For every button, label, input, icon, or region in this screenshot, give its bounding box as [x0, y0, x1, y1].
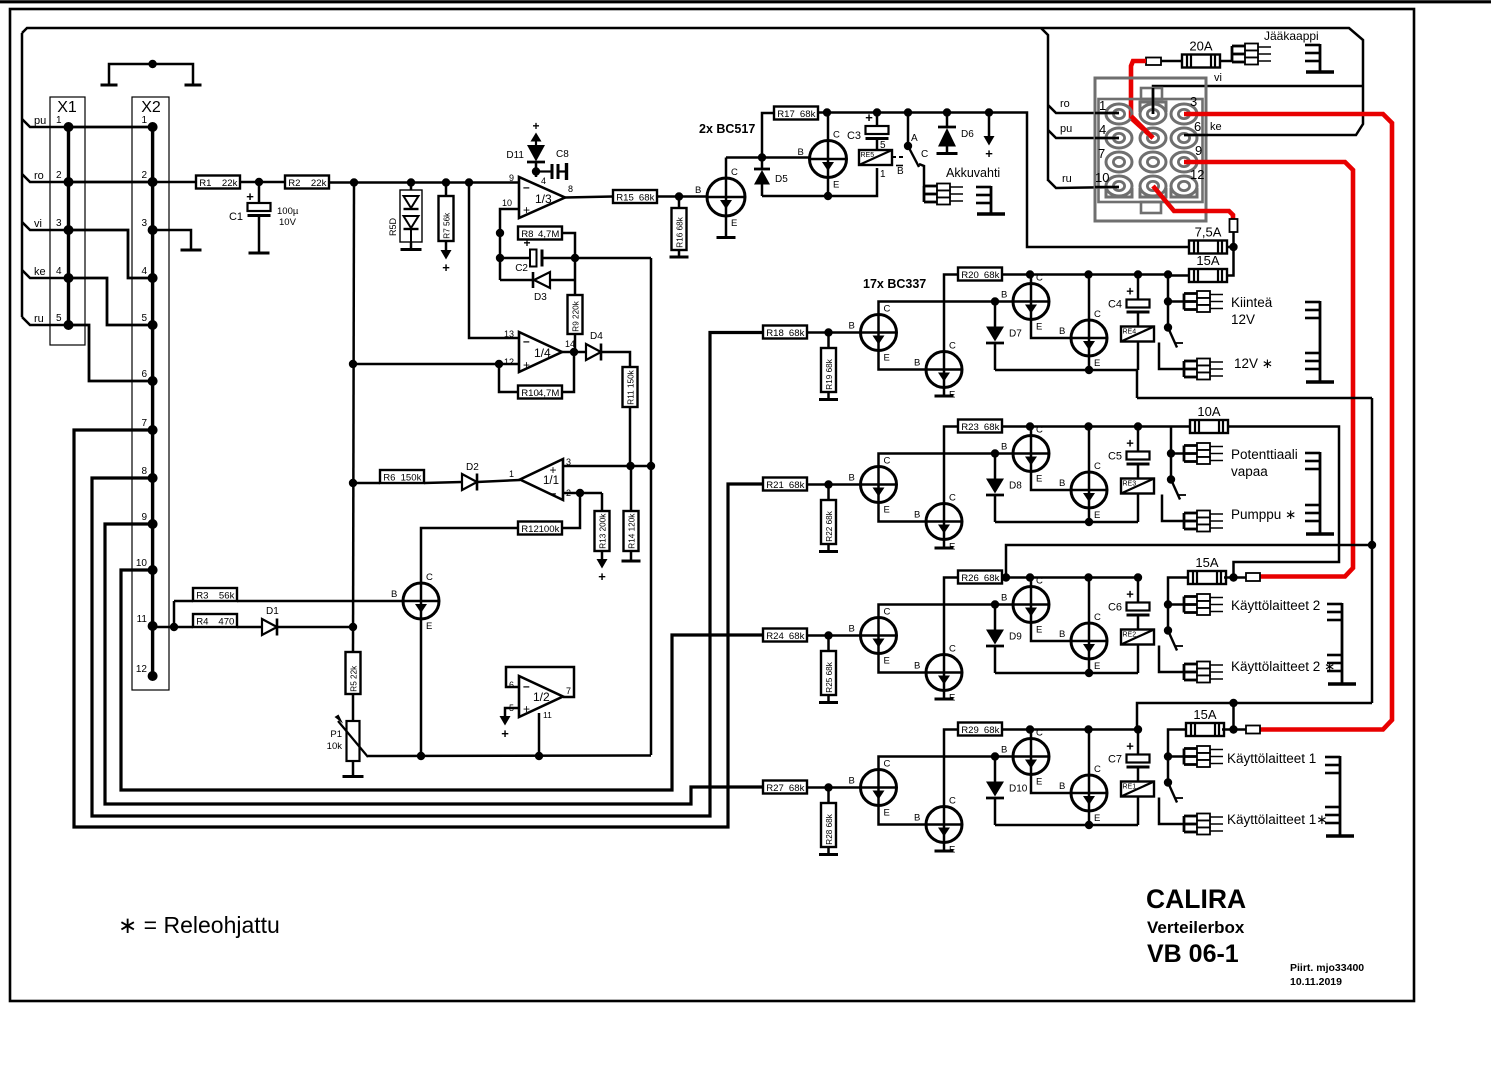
svg-text:17x BC337: 17x BC337: [863, 277, 926, 291]
svg-text:C: C: [949, 341, 956, 352]
wire ke from pin6: [1184, 134, 1208, 136]
svg-text:R14 120k: R14 120k: [627, 513, 636, 549]
wire R13 to supply arrow: [601, 551, 604, 559]
svg-text:E: E: [426, 621, 432, 632]
svg-text:C: C: [426, 572, 433, 583]
wire pu into pin4: [1095, 137, 1119, 139]
svg-text:7: 7: [1098, 146, 1105, 161]
wire Qb collector to R26: [944, 578, 958, 655]
svg-text:C6: C6: [1108, 602, 1122, 614]
svg-text:B: B: [1059, 781, 1065, 792]
svg-text:C: C: [949, 796, 956, 807]
svg-text:22k: 22k: [311, 178, 327, 189]
svg-text:B: B: [391, 589, 397, 600]
node X1 pin 4: [64, 273, 74, 283]
ground bracket above X2: [109, 64, 193, 84]
wire bottom rail row2: [995, 521, 1138, 524]
resistor R4: [193, 614, 237, 627]
wire Qc emitter to Qd base: [1031, 472, 1071, 491]
wire row1 bottom to link: [1136, 370, 1139, 398]
fuse F-10A 10A: [1190, 404, 1228, 433]
resistor R19: [821, 348, 836, 392]
wire vi chamfer to X1: [22, 222, 69, 230]
transistor Qa row4: [849, 759, 897, 819]
wire pulldown bottom: [827, 392, 830, 399]
wire X2.2 to R1: [153, 181, 196, 184]
wire Qb emitter: [943, 843, 946, 850]
svg-text:X2: X2: [141, 99, 161, 116]
wire X2.8 to R18 row: [92, 333, 763, 817]
connector block pin 1: [1106, 104, 1132, 124]
svg-text:5: 5: [141, 313, 147, 324]
wire D5 bottom: [761, 185, 764, 197]
svg-text:1: 1: [509, 469, 514, 479]
switch S row4: [1164, 778, 1183, 802]
diode D4: [586, 331, 603, 361]
resistor R25: [821, 651, 836, 695]
svg-text:7: 7: [141, 418, 147, 429]
svg-text:1: 1: [1099, 98, 1106, 113]
node X2 pin 8: [148, 473, 158, 483]
svg-text:C4: C4: [1108, 299, 1122, 311]
svg-text:100µ: 100µ: [277, 206, 299, 217]
svg-text:C: C: [921, 149, 928, 160]
wire 1/2 feedback loop: [506, 667, 574, 697]
wire C1 tap: [258, 182, 261, 203]
svg-text:20A: 20A: [1189, 39, 1212, 54]
wire tap to connector Kiintea 12V: [1168, 300, 1184, 303]
svg-text:10: 10: [1095, 170, 1109, 185]
fuse F-15A row3 15A: [1188, 555, 1226, 584]
wire switch bracket row2: [1162, 495, 1184, 522]
ground under Qb: [935, 698, 954, 701]
svg-text:68k: 68k: [639, 192, 655, 203]
wire Q2 emitter down: [827, 177, 830, 196]
wire Qa collector to Qc base line: [879, 302, 1014, 315]
svg-text:6: 6: [141, 369, 147, 380]
wire tap to connector Kayttolaitteet 1: [1168, 755, 1184, 758]
resistor R9: [568, 295, 583, 334]
svg-text:RE1: RE1: [1123, 784, 1137, 791]
svg-text:D9: D9: [1009, 632, 1022, 643]
capacitor C8: [537, 149, 570, 180]
wire D8 anode: [994, 454, 997, 479]
ground at X2 pin3: [153, 230, 191, 249]
fuse F-15A row4 15A: [1186, 707, 1224, 736]
svg-text:RE2: RE2: [1123, 632, 1137, 639]
svg-text:C1: C1: [229, 211, 243, 223]
wire cap to relay: [1137, 767, 1140, 782]
wire link row1-row2 horizontal: [1137, 397, 1372, 400]
wire R17 left leg: [762, 113, 774, 158]
svg-text:R25 68k: R25 68k: [825, 661, 834, 692]
wire Qa emitter to Qb base: [879, 806, 927, 825]
svg-text:R13 200k: R13 200k: [598, 513, 607, 549]
resistor R27: [763, 781, 807, 794]
resistor R13: [595, 511, 610, 551]
wire ru to pin10: [1048, 180, 1119, 188]
wire left input bus: [21, 33, 24, 317]
svg-text:3: 3: [56, 218, 62, 229]
wire row4 fuse right node: [1222, 728, 1246, 731]
wire Qd collector: [1088, 730, 1091, 776]
svg-text:5: 5: [56, 313, 62, 324]
ground under R14: [622, 560, 641, 563]
chassis ground row4 outputs: [1325, 756, 1354, 836]
chassis ground row3 outputs: [1327, 603, 1356, 684]
connector Kayttolaitteet 2: [1184, 594, 1223, 615]
wire D2 to 1/1 pin1: [477, 480, 520, 482]
wire row3 rail: [1002, 576, 1138, 579]
diode D2: [462, 462, 479, 491]
wire supply rail y112: [827, 113, 1189, 248]
red wire pin3 to Kayttolaitteet1 fuse: [1184, 114, 1392, 730]
wire row2 rail: [1002, 425, 1171, 428]
svg-text:Jääkaappi: Jääkaappi: [1264, 29, 1319, 43]
resistor R12: [518, 522, 562, 535]
svg-text:ke: ke: [34, 266, 46, 278]
wire bottom rail P1 to C2 vertical: [368, 754, 651, 757]
wire relay to bottom rail: [1137, 797, 1140, 826]
connector block pin 9: [1171, 152, 1197, 172]
wire X2 bus: [151, 127, 154, 676]
resistor R26: [958, 571, 1002, 584]
svg-text:R18: R18: [766, 328, 784, 339]
svg-text:RE5: RE5: [861, 152, 875, 159]
svg-text:4,7M: 4,7M: [538, 229, 559, 240]
resistor R15: [613, 190, 657, 203]
connector block pin 12: [1171, 176, 1197, 197]
svg-text:15A: 15A: [1193, 707, 1216, 722]
svg-text:10k: 10k: [327, 741, 343, 752]
resistor R7: [439, 196, 454, 241]
wire Qd emitter: [1088, 356, 1091, 370]
svg-text:C2: C2: [515, 263, 528, 274]
resistor R20: [958, 268, 1002, 281]
wire 1/1 pin3 line: [563, 465, 651, 468]
svg-text:–: –: [550, 486, 557, 500]
svg-text:E: E: [1094, 510, 1100, 521]
svg-text:68k: 68k: [984, 725, 1000, 736]
svg-text:2: 2: [56, 170, 62, 181]
wire Qb emitter: [943, 540, 946, 547]
wire ru chamfer to X1: [22, 317, 69, 325]
svg-text:100k: 100k: [539, 524, 560, 535]
svg-text:–: –: [523, 180, 530, 194]
wire Qd emitter: [1088, 659, 1091, 673]
svg-text:R22 68k: R22 68k: [825, 510, 834, 541]
node X1 pin 3: [64, 225, 74, 235]
svg-text:C3: C3: [847, 130, 861, 142]
svg-text:B: B: [695, 185, 701, 196]
wire D9 anode: [994, 605, 997, 630]
wire link to row4: [1137, 703, 1372, 730]
supply arrow on rail: [988, 113, 991, 137]
resistor R11: [623, 367, 638, 407]
capacitor C6: [1108, 587, 1150, 616]
switch S row3: [1164, 626, 1183, 650]
ground under Qb: [935, 395, 954, 398]
connector Akkuvahti plug: [924, 184, 963, 205]
chassis ground Jaakaappi: [1305, 44, 1334, 72]
ground under pulldown: [819, 550, 838, 553]
node X2 pin 11: [148, 621, 158, 631]
resistor R17: [774, 107, 818, 120]
svg-text:4: 4: [141, 266, 147, 277]
wire switch bracket row1: [1159, 343, 1184, 370]
connector 12V*: [1184, 359, 1223, 380]
svg-text:1: 1: [141, 115, 147, 126]
svg-text:R20: R20: [961, 270, 979, 281]
svg-text:10A: 10A: [1197, 404, 1220, 419]
relay RE5: [859, 150, 892, 165]
svg-text:D7: D7: [1009, 329, 1022, 340]
svg-text:C: C: [1094, 612, 1101, 623]
svg-text:B: B: [1001, 442, 1007, 453]
connector block pin 2: [1140, 102, 1166, 124]
connector block pin 8: [1140, 152, 1166, 172]
fuse F-7.5A 7,5A: [1189, 225, 1227, 254]
svg-text:E: E: [1036, 474, 1042, 485]
svg-text:+: +: [501, 726, 509, 741]
resistor R29: [958, 723, 1002, 736]
svg-text:+: +: [1126, 436, 1134, 451]
svg-text:C5: C5: [1108, 451, 1122, 463]
terminal row4: [1246, 726, 1260, 734]
wire tap to connector Potenttiaali vapaa: [1171, 452, 1184, 455]
wire tap to connector Kayttolaitteet 2: [1168, 603, 1184, 606]
wire pulldown bottom: [827, 544, 830, 551]
svg-text:C: C: [1094, 461, 1101, 472]
transistor Qc row4: [1001, 728, 1049, 788]
svg-text:∗ = Releohjattu: ∗ = Releohjattu: [118, 912, 280, 938]
svg-text:11: 11: [137, 614, 148, 625]
op-amp U1 1/4: [504, 329, 575, 372]
wire D10 anode: [994, 757, 997, 782]
svg-text:D6: D6: [961, 129, 974, 140]
svg-text:C: C: [1094, 309, 1101, 320]
svg-text:8: 8: [568, 184, 573, 194]
wire link to row3 rail: [1006, 545, 1372, 578]
transistor Q3 driver: [391, 572, 439, 632]
op-amp U1 1/2: [509, 676, 571, 720]
wire Qa emitter to Qb base: [879, 654, 927, 673]
fuse F-15A row1 15A: [1189, 253, 1227, 282]
svg-text:E: E: [1094, 661, 1100, 672]
svg-text:B: B: [914, 510, 920, 521]
relay RE1: [1121, 782, 1154, 797]
svg-text:E: E: [884, 505, 890, 516]
connector block pin 5: [1140, 128, 1166, 148]
svg-text:B: B: [1059, 326, 1065, 337]
node X2 pin 6: [148, 376, 158, 386]
wire long vertical to bottom rail: [650, 258, 653, 755]
relay RE4: [1121, 327, 1154, 342]
transistor Qd row2: [1059, 461, 1107, 521]
svg-text:E: E: [884, 808, 890, 819]
wire R11 bottom to comparator line: [629, 407, 632, 466]
wire terminal down to 7.5A node: [1232, 232, 1235, 247]
transistor Q2 BC517: [798, 130, 847, 191]
svg-text:4: 4: [541, 176, 546, 186]
svg-text:R9 220k: R9 220k: [571, 300, 580, 331]
potentiometer P1: [327, 715, 368, 762]
chassis ground Akkuvahti: [976, 186, 1005, 214]
connector X2: [132, 97, 169, 690]
svg-text:vi: vi: [34, 218, 42, 230]
wire R12 left to Q3 collector: [421, 528, 518, 583]
svg-text:7,5A: 7,5A: [1195, 225, 1222, 240]
svg-text:RE3: RE3: [1123, 481, 1137, 488]
svg-text:R10: R10: [521, 388, 539, 399]
svg-text:C: C: [884, 304, 891, 315]
wire switch to Akkuvahti connector: [919, 164, 924, 186]
ground under Qb: [935, 547, 954, 550]
svg-text:9: 9: [1195, 143, 1202, 158]
red wire pin11 to 7.5A feed: [1153, 186, 1233, 219]
wire R15 to Q1 base: [657, 195, 707, 198]
wire R8 right to C2 node: [562, 233, 575, 295]
wire R3 left: [174, 600, 193, 603]
svg-text:15A: 15A: [1195, 555, 1218, 570]
wire cap to relay: [1137, 464, 1140, 479]
svg-text:10: 10: [502, 198, 512, 208]
wire D8 cathode to bottom rail: [994, 496, 997, 523]
resistor R16: [672, 208, 687, 250]
wire 10A to switch row2: [1170, 427, 1173, 480]
svg-text:B: B: [1001, 290, 1007, 301]
connector Kiintea 12V: [1184, 291, 1223, 312]
svg-text:B: B: [849, 321, 855, 332]
svg-text:R5D: R5D: [388, 217, 398, 236]
wire Qd collector: [1088, 427, 1091, 473]
wire Qc collector: [1030, 275, 1033, 284]
wire bus to 1/4 pin12: [353, 363, 519, 366]
diode D5: [754, 169, 788, 185]
resistor R5: [346, 652, 361, 694]
wire Q1 collector to Q2 base: [726, 156, 810, 159]
resistor R18: [763, 326, 807, 339]
svg-text:+: +: [1126, 587, 1134, 602]
svg-text:E: E: [1094, 358, 1100, 369]
svg-text:+: +: [532, 119, 539, 133]
wire D1 to bus: [277, 626, 353, 629]
svg-text:C: C: [884, 607, 891, 618]
wire C3 top: [876, 113, 879, 127]
wire 1/1 pin2 line: [563, 492, 602, 495]
svg-text:D3: D3: [534, 292, 547, 303]
ground under Qb: [935, 850, 954, 853]
ground under C1: [249, 252, 270, 255]
wire D5-Q2E-RE5 bottom line: [762, 168, 877, 196]
svg-text:Potenttiaali: Potenttiaali: [1231, 447, 1298, 462]
capacitor C1: [229, 189, 271, 223]
wire R299 top: [827, 788, 830, 804]
wire Qd emitter: [1088, 811, 1091, 825]
resistor R21: [763, 478, 807, 491]
svg-text:R17: R17: [777, 109, 795, 120]
chassis ground row2 outputs: [1305, 452, 1334, 534]
wire Qa collector to Qc base line: [879, 605, 1014, 618]
svg-text:150k: 150k: [401, 472, 422, 483]
ground under pulldown: [819, 853, 838, 856]
wire row1 rail: [1002, 273, 1168, 276]
svg-text:B: B: [914, 813, 920, 824]
svg-text:E: E: [1036, 322, 1042, 333]
capacitor C5: [1108, 436, 1150, 465]
svg-text:Käyttölaitteet 2: Käyttölaitteet 2: [1231, 598, 1320, 613]
wire D9 cathode to bottom rail: [994, 647, 997, 674]
connector block pin 4: [1106, 128, 1132, 148]
svg-text:E: E: [1036, 777, 1042, 788]
svg-text:B: B: [1001, 745, 1007, 756]
wire 1/3 output to R15: [565, 197, 613, 198]
svg-text:470: 470: [218, 616, 234, 627]
svg-text:R11 150k: R11 150k: [626, 369, 635, 404]
svg-text:E: E: [833, 180, 839, 191]
relay RE3: [1121, 479, 1154, 494]
wire row3 fuse right node: [1224, 576, 1246, 579]
resistor R24: [763, 629, 807, 642]
wire R5D top: [410, 183, 413, 191]
wire D5 top: [761, 158, 764, 170]
wire D4 to R11: [601, 352, 630, 367]
connector Jaakaappi plug: [1232, 44, 1271, 65]
wire bottom rail row3: [995, 672, 1138, 675]
switch S row2: [1167, 475, 1186, 499]
wire R27 to Qa base: [807, 786, 861, 789]
wire R5 top: [352, 651, 355, 654]
svg-text:C8: C8: [556, 149, 569, 160]
node X1 pin 1: [64, 122, 74, 132]
wire fuse left down to switch row4: [1168, 730, 1189, 783]
wire R6 left: [353, 482, 380, 485]
wire ro chamfer to X1: [22, 174, 69, 182]
wire rail row2 to 10A fuse: [1171, 425, 1190, 428]
svg-text:B: B: [1059, 478, 1065, 489]
wire Qb emitter: [943, 691, 946, 698]
wire ke chamfer to X1: [22, 270, 69, 278]
svg-text:B: B: [914, 661, 920, 672]
svg-text:68k: 68k: [984, 422, 1000, 433]
ground under P1: [343, 775, 364, 778]
svg-text:12V ∗: 12V ∗: [1234, 356, 1273, 371]
wire link vertical right: [1371, 398, 1374, 703]
wire R14 bottom: [630, 551, 633, 560]
svg-text:R12: R12: [521, 524, 539, 535]
wire cap chain top: [1137, 275, 1140, 300]
wire Qb emitter: [943, 388, 946, 395]
wire 1/3 line to 1/4 pin13: [469, 183, 519, 339]
svg-text:2x BC517: 2x BC517: [699, 122, 755, 136]
red wire pin9 to Kayttolaitteet2 fuse: [1184, 162, 1353, 577]
wire 1/2 pin11 to rail: [538, 713, 541, 756]
svg-text:+: +: [598, 569, 606, 584]
svg-text:12: 12: [1190, 167, 1204, 182]
svg-text:D10: D10: [1009, 784, 1028, 795]
svg-text:10: 10: [136, 558, 148, 569]
wire R12 right leg: [562, 493, 580, 528]
wire bottom rail row4: [995, 824, 1138, 827]
wire C2 right to long vertical: [543, 257, 651, 260]
node X1 pin 2: [64, 177, 74, 187]
svg-text:X1: X1: [57, 99, 77, 116]
svg-text:1: 1: [880, 169, 886, 180]
wire cap to relay: [1137, 312, 1140, 327]
svg-text:R28 68k: R28 68k: [825, 813, 834, 844]
wire R3 to Q3 base: [237, 600, 403, 603]
resistor R28: [821, 803, 836, 847]
